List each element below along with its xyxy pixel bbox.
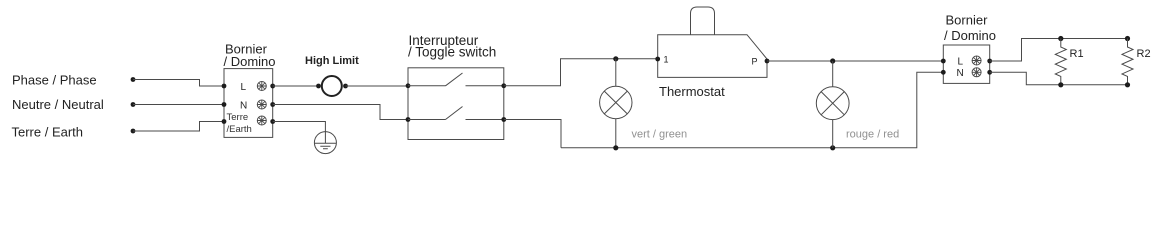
TB1 screw terminal Terre [257, 116, 266, 125]
node junction green lamp tap [613, 56, 618, 61]
svg-text:/ Toggle switch: / Toggle switch [408, 44, 496, 59]
wire high limit to switch S1 pole 1 [346, 85, 409, 87]
wire red lamp to bottom rail [832, 120, 834, 148]
node TB1 L left [222, 84, 227, 89]
node R1 bottom [1058, 82, 1063, 87]
node R1 top [1058, 36, 1063, 41]
svg-text:Bornier: Bornier [946, 13, 989, 28]
resistor R1 [1055, 39, 1066, 85]
node rail red lamp junction [830, 145, 835, 150]
TB2 screw terminal L [972, 56, 981, 65]
wire earth input to TB1 pin Terre [133, 122, 224, 132]
node R2 bottom [1125, 82, 1130, 87]
svg-text:Terre / Earth: Terre / Earth [12, 125, 84, 140]
resistor R2 [1122, 39, 1133, 85]
node S1 pole1 in [406, 83, 411, 88]
thermostat TH1 body [658, 35, 767, 78]
svg-text:Phase / Phase: Phase / Phase [12, 73, 97, 88]
TB1 screw terminal L [257, 82, 266, 91]
svg-text:/ Domino: / Domino [224, 54, 276, 69]
svg-text:N: N [957, 68, 964, 79]
node TB1 Terre left [222, 119, 227, 124]
switch S1 pole 2 blade [446, 107, 463, 120]
node TB1 N right [270, 102, 275, 107]
wire TB1 L to high limit [273, 85, 319, 87]
TB2 screw terminal N [972, 68, 981, 77]
svg-text:/Earth: /Earth [227, 124, 252, 135]
svg-text:R2: R2 [1137, 48, 1151, 60]
node phase input terminal [131, 77, 136, 82]
node S1 pole2 in [406, 117, 411, 122]
node TB2 L right [987, 59, 992, 64]
node S1 pole1 out [501, 83, 506, 88]
TB1 screw terminal N [257, 100, 266, 109]
svg-text:Neutre / Neutral: Neutre / Neutral [12, 97, 104, 112]
high limit thermal cutout HL1 [322, 76, 342, 96]
switch S1 pole 1 blade [446, 73, 463, 86]
switch S1 body [408, 68, 504, 140]
node R2 top [1125, 36, 1130, 41]
svg-text:L: L [241, 82, 247, 93]
node thermostat pin 1 [655, 57, 660, 62]
node high limit left [316, 84, 321, 89]
wire bottom neutral rail [561, 72, 943, 148]
wire green lamp to bottom rail [615, 119, 617, 148]
node rail green lamp junction [613, 145, 618, 150]
svg-text:High Limit: High Limit [305, 55, 359, 67]
node TB1 Terre right [270, 119, 275, 124]
svg-text:P: P [752, 57, 758, 67]
wire TB1 N to switch S1 pole 2 [273, 105, 408, 120]
terminal block TB2 body [943, 45, 989, 83]
wire tap to red lamp [832, 61, 834, 87]
svg-text:vert / green: vert / green [632, 128, 688, 140]
switch S1 pole 1 contacts [408, 85, 504, 87]
node TB1 N left [222, 102, 227, 107]
node earth input terminal [131, 129, 136, 134]
svg-text:R1: R1 [1070, 48, 1084, 60]
wire thermostat pin P to TB2 pin L [767, 60, 943, 62]
node TB2 N right [987, 70, 992, 75]
terminal block TB1 body [224, 69, 273, 138]
wire TB1 Terre to ground [273, 122, 326, 132]
svg-text:N: N [240, 100, 247, 111]
node TB2 N left [941, 70, 946, 75]
wire S1 pole2 out to bottom rail [504, 120, 561, 148]
svg-text:Terre: Terre [227, 112, 249, 123]
lamp DS1 vert/green [600, 86, 632, 118]
node TB1 L right [270, 84, 275, 89]
wire S1 pole1 out to thermostat pin 1 [504, 59, 658, 86]
wire neutral input to TB1 pin N [133, 104, 224, 106]
svg-text:/ Domino: / Domino [944, 28, 996, 43]
svg-text:Thermostat: Thermostat [659, 84, 725, 99]
node thermostat pin P [765, 59, 770, 64]
node junction red lamp tap [830, 58, 835, 63]
thermostat knob [691, 7, 715, 35]
wire phase input to TB1 pin L [133, 80, 224, 87]
svg-text:L: L [958, 56, 964, 67]
node S1 pole2 out [501, 117, 506, 122]
node neutral input terminal [131, 102, 136, 107]
switch S1 pole 2 contacts [408, 119, 504, 121]
wire TB2 L to resistor top rail [990, 39, 1128, 62]
svg-text:1: 1 [664, 55, 669, 65]
lamp DS2 rouge/red [816, 87, 849, 120]
svg-text:rouge / red: rouge / red [846, 128, 899, 140]
wire tap to green lamp [615, 59, 617, 87]
node TB2 L left [941, 59, 946, 64]
node high limit right [343, 84, 348, 89]
ground earth symbol [314, 132, 336, 154]
wire TB2 N to resistor bottom rail [990, 72, 1128, 85]
